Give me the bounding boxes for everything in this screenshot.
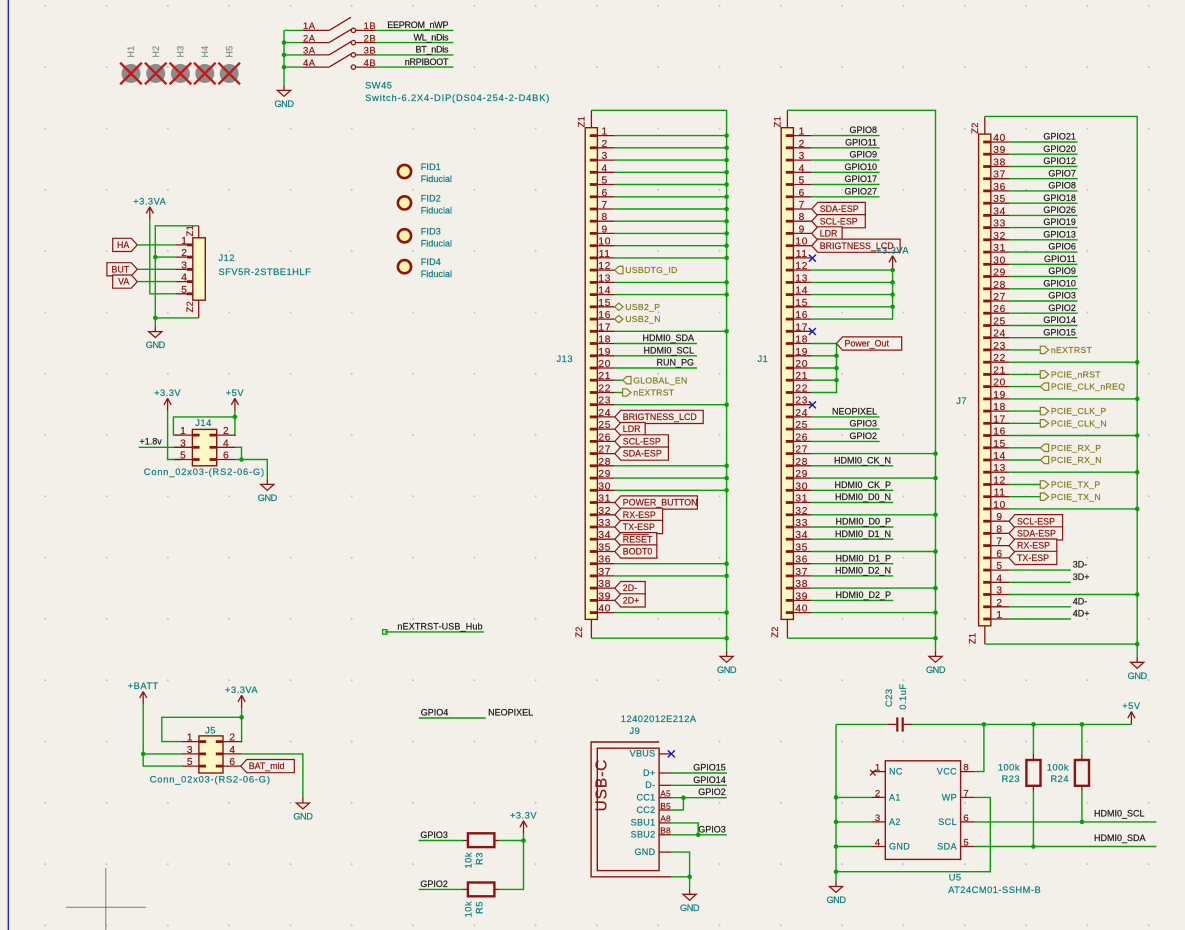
global label VA — [113, 275, 138, 288]
svg-text:3: 3 — [181, 260, 187, 271]
wire GPIO2 to R5 — [419, 888, 463, 890]
wire net GPIO15 — [1009, 337, 1078, 339]
svg-text:25: 25 — [993, 317, 1006, 328]
junction — [1080, 722, 1085, 727]
svg-text:SCL: SCL — [938, 817, 957, 827]
global label BRIGTNESS_LCD — [812, 239, 900, 252]
svg-text:GPIO11: GPIO11 — [1044, 254, 1076, 264]
svg-text:15: 15 — [795, 298, 808, 309]
global label RX-ESP — [1009, 539, 1057, 552]
svg-text:GPIO3: GPIO3 — [1048, 291, 1076, 301]
junction — [239, 457, 244, 462]
wire net nRPIBOOT — [376, 66, 453, 68]
svg-text:30: 30 — [598, 481, 611, 492]
svg-text:+1.8v: +1.8v — [140, 437, 163, 447]
svg-text:GPIO2: GPIO2 — [1048, 303, 1076, 313]
junction — [239, 715, 244, 720]
svg-text:A5: A5 — [660, 789, 671, 799]
capacitor C23 — [888, 717, 912, 731]
wire VA to pin4 — [137, 281, 176, 283]
junction — [890, 268, 895, 273]
wire net GPIO21 — [1009, 141, 1078, 143]
no-connect VBUS — [668, 750, 675, 757]
svg-text:GPIO10: GPIO10 — [844, 162, 877, 172]
wire net HDMI0_D0_P — [812, 526, 894, 528]
svg-text:GPIO21: GPIO21 — [1043, 132, 1076, 142]
junction — [724, 402, 729, 407]
hier label PCIE_CLK_N — [1040, 418, 1107, 428]
svg-text:20: 20 — [795, 359, 808, 370]
svg-text:28: 28 — [795, 457, 808, 468]
svg-text:5: 5 — [799, 176, 805, 187]
svg-text:FID3: FID3 — [421, 226, 441, 236]
svg-text:14: 14 — [598, 286, 611, 297]
svg-text:R5: R5 — [475, 901, 485, 914]
svg-text:1: 1 — [187, 733, 193, 744]
junction — [933, 586, 938, 591]
junction — [724, 292, 729, 297]
wire J13 pin 13 to GND bus — [615, 281, 727, 283]
wire A2 — [836, 821, 872, 823]
wire net 4D+ — [1009, 618, 1071, 620]
svg-text:D-: D- — [645, 780, 655, 790]
junction — [282, 65, 287, 70]
svg-text:PCIE_nRST: PCIE_nRST — [1051, 370, 1101, 380]
junction — [834, 869, 839, 874]
wire +BATT to pin3/pin5 — [143, 704, 181, 766]
junction — [724, 231, 729, 236]
svg-text:GPIO26: GPIO26 — [1043, 205, 1076, 215]
wire A1 — [836, 796, 872, 798]
junction — [890, 280, 895, 285]
junction — [834, 378, 839, 383]
svg-text:RUN_PG: RUN_PG — [656, 358, 694, 368]
global label LDR — [615, 423, 645, 436]
junction — [933, 549, 938, 554]
svg-text:21: 21 — [795, 371, 808, 382]
wire CC2 to CC1 — [671, 798, 683, 810]
svg-text:11: 11 — [994, 488, 1006, 499]
global label 2D- — [615, 582, 645, 595]
svg-text:SW45: SW45 — [365, 81, 392, 91]
label 10k R3 — [464, 852, 485, 869]
svg-text:40: 40 — [993, 133, 1006, 144]
wire R5 to junction — [499, 841, 523, 890]
junction — [933, 513, 938, 518]
hier label nEXTRST — [1040, 345, 1092, 355]
hier label nEXTRST — [623, 388, 675, 398]
svg-text:HDMI0_D0_N: HDMI0_D0_N — [835, 492, 891, 502]
junction — [834, 820, 839, 825]
svg-text:7: 7 — [963, 788, 969, 799]
ground U5 — [826, 881, 846, 905]
svg-text:28: 28 — [993, 280, 1006, 291]
wire J13 pin 40 to GND bus — [615, 612, 727, 614]
connector J7 — [967, 116, 1009, 644]
svg-text:3: 3 — [602, 151, 608, 162]
junction — [521, 838, 526, 843]
junction — [724, 488, 729, 493]
junction — [834, 844, 839, 849]
svg-text:PCIE_RX_P: PCIE_RX_P — [1051, 443, 1102, 453]
junction — [724, 146, 729, 151]
wire to hier label nEXTRST — [615, 392, 623, 394]
svg-text:RX-ESP: RX-ESP — [1017, 541, 1050, 551]
junction — [1135, 507, 1140, 512]
svg-text:4: 4 — [223, 438, 229, 449]
wire J1 pin 27 to GND bus — [812, 453, 936, 455]
origin marker cross — [66, 868, 146, 930]
svg-text:R23: R23 — [1001, 774, 1020, 784]
svg-text:7: 7 — [799, 200, 805, 211]
svg-text:HDMI0_SCL: HDMI0_SCL — [1094, 808, 1145, 818]
mounting hole H5 (DNP) — [218, 45, 240, 84]
svg-text:22: 22 — [795, 384, 808, 395]
svg-text:6: 6 — [996, 549, 1002, 560]
svg-text:SBU1: SBU1 — [631, 818, 656, 828]
svg-text:HA: HA — [117, 240, 129, 250]
svg-text:5: 5 — [187, 757, 193, 768]
ground J12 — [146, 326, 166, 350]
wire +3.3V to pin5 — [168, 411, 181, 459]
junction — [724, 561, 729, 566]
svg-text:18: 18 — [598, 335, 611, 346]
svg-text:SDA-ESP: SDA-ESP — [1017, 529, 1056, 539]
wire net BT_nDis — [376, 54, 453, 56]
svg-text:NEOPIXEL: NEOPIXEL — [488, 708, 533, 718]
wire J13 pin 2 to GND bus — [615, 147, 727, 149]
wire J13 pin 17 to GND bus — [615, 330, 727, 332]
svg-text:GPIO9: GPIO9 — [849, 150, 877, 160]
svg-text:17: 17 — [795, 322, 808, 333]
wire net 3D+ — [1009, 581, 1071, 583]
svg-text:3: 3 — [996, 586, 1002, 597]
wire J13 pin 8 to GND bus — [615, 220, 727, 222]
svg-text:4B: 4B — [364, 57, 376, 68]
wire net GPIO10 — [812, 171, 880, 173]
svg-text:2B: 2B — [364, 32, 376, 43]
svg-text:FID4: FID4 — [421, 257, 441, 267]
svg-text:A1: A1 — [889, 792, 901, 802]
svg-text:38: 38 — [795, 579, 808, 590]
junction — [153, 316, 158, 321]
junction — [724, 243, 729, 248]
wire SBU1 to SBU2 — [671, 823, 698, 835]
svg-text:20: 20 — [993, 378, 1006, 389]
fiducial FID4 — [398, 260, 411, 273]
svg-text:GPIO18: GPIO18 — [1043, 193, 1076, 203]
svg-text:5: 5 — [963, 838, 969, 849]
svg-text:2: 2 — [223, 426, 229, 437]
wire to hier label PCIE_CLK_N — [1009, 422, 1040, 424]
svg-text:33: 33 — [993, 219, 1006, 230]
svg-text:22: 22 — [993, 353, 1006, 364]
wire to hier label PCIE_RX_N — [1009, 459, 1040, 461]
svg-text:3B: 3B — [364, 45, 376, 56]
wire J13 pin 36 to GND bus — [615, 563, 727, 565]
wire J13 pin 11 to GND bus — [615, 257, 727, 259]
svg-text:Z2: Z2 — [185, 301, 195, 312]
svg-text:PCIE_TX_P: PCIE_TX_P — [1051, 480, 1101, 490]
junction — [282, 40, 287, 45]
svg-text:Z1: Z1 — [576, 116, 586, 127]
svg-text:34: 34 — [993, 206, 1006, 217]
svg-text:34: 34 — [598, 530, 611, 541]
svg-text:USBDTG_ID: USBDTG_ID — [625, 265, 677, 275]
junction — [1135, 470, 1140, 475]
resistor R24 — [1075, 724, 1089, 822]
svg-text:nEXTRST-USB_Hub: nEXTRST-USB_Hub — [397, 621, 482, 631]
svg-text:GLOBAL_EN: GLOBAL_EN — [633, 375, 687, 385]
svg-text:+BATT: +BATT — [128, 681, 159, 691]
wire nEXTRST-USB_Hub — [383, 630, 485, 634]
wire SW45 3A — [284, 54, 303, 56]
hier label PCIE_CLK_P — [1040, 406, 1106, 416]
connector J1 — [770, 110, 812, 638]
label FID3 — [421, 226, 452, 248]
wire J1 pin 19 — [812, 355, 837, 357]
wire net 4D- — [1009, 606, 1071, 608]
svg-text:14: 14 — [795, 286, 808, 297]
power +5V J14 — [226, 388, 245, 411]
wire +5V down to pin2 — [234, 417, 237, 435]
svg-text:3D+: 3D+ — [1073, 572, 1090, 582]
junction — [141, 752, 146, 757]
svg-text:PCIE_RX_N: PCIE_RX_N — [1051, 455, 1102, 465]
sheet border — [7, 0, 9, 930]
svg-text:9: 9 — [799, 224, 805, 235]
power +3.3V R3 — [510, 810, 537, 833]
svg-text:BUT: BUT — [112, 264, 130, 274]
svg-text:3A: 3A — [303, 45, 316, 56]
junction — [1135, 360, 1140, 365]
svg-text:2A: 2A — [303, 32, 316, 43]
wire net GPIO27 — [812, 196, 880, 198]
global label SCL-ESP — [615, 435, 669, 448]
junction — [834, 795, 839, 800]
svg-text:3D-: 3D- — [1073, 560, 1088, 570]
svg-text:GPIO2: GPIO2 — [698, 787, 726, 797]
fiducial FID2 — [398, 196, 411, 209]
hier label PCIE_CLK_nREQ — [1040, 382, 1125, 392]
wire net GPIO8 — [812, 135, 880, 137]
svg-text:TX-ESP: TX-ESP — [623, 522, 655, 532]
wire J13 pin 5 to GND bus — [615, 184, 727, 186]
svg-text:Z1: Z1 — [185, 225, 195, 236]
wire net GPIO2 — [1009, 312, 1078, 314]
wire J1 pin 14 — [812, 294, 893, 296]
svg-text:HDMI0_SDA: HDMI0_SDA — [642, 333, 694, 343]
svg-text:USB-C: USB-C — [594, 759, 611, 812]
global label SCL-ESP — [812, 215, 866, 228]
svg-text:37: 37 — [795, 567, 808, 578]
junction — [933, 476, 938, 481]
svg-text:4D-: 4D- — [1073, 596, 1088, 606]
junction — [724, 133, 729, 138]
ground J13 — [717, 651, 737, 675]
wire SW45 2A — [284, 42, 303, 44]
svg-text:19: 19 — [993, 390, 1006, 401]
svg-text:29: 29 — [598, 469, 611, 480]
svg-text:22: 22 — [598, 384, 611, 395]
svg-text:SCL-ESP: SCL-ESP — [623, 437, 661, 447]
ground J14 — [258, 479, 278, 503]
svg-text:100k: 100k — [998, 762, 1020, 772]
svg-text:GPIO3: GPIO3 — [849, 419, 877, 429]
svg-text:38: 38 — [993, 158, 1006, 169]
wire GND J9 — [671, 852, 690, 889]
wire J13 pin 7 to GND bus — [615, 208, 727, 210]
junction — [1135, 642, 1140, 647]
svg-text:12402012E212A: 12402012E212A — [621, 714, 697, 724]
wire net RUN_PG — [615, 367, 697, 369]
global label LDR — [812, 227, 842, 240]
resistor R5 — [463, 883, 499, 897]
svg-text:GND: GND — [274, 99, 294, 109]
svg-text:3: 3 — [180, 438, 186, 449]
svg-text:27: 27 — [795, 445, 808, 456]
wire J13 pin 9 to GND bus — [615, 232, 727, 234]
svg-text:17: 17 — [598, 322, 611, 333]
wire net GPIO11 — [1009, 263, 1078, 265]
switch SW45 pole 4 — [303, 54, 377, 69]
svg-text:36: 36 — [993, 182, 1006, 193]
svg-text:AT24CM01-SSHM-B: AT24CM01-SSHM-B — [948, 885, 1041, 895]
svg-text:6: 6 — [223, 451, 229, 462]
wire net GPIO18 — [1009, 202, 1078, 204]
svg-text:2: 2 — [602, 139, 608, 150]
junction — [724, 636, 729, 641]
junction — [1135, 592, 1140, 597]
svg-text:33: 33 — [598, 518, 611, 529]
svg-text:5: 5 — [602, 176, 608, 187]
svg-text:7: 7 — [602, 200, 608, 211]
svg-text:POWER_BUTTON: POWER_BUTTON — [623, 498, 698, 508]
wire J7 pin 3 to GND bus — [1009, 594, 1137, 596]
svg-text:PCIE_CLK_nREQ: PCIE_CLK_nREQ — [1051, 382, 1125, 392]
svg-text:2D+: 2D+ — [623, 596, 640, 606]
wire Power_Out bundle vertical — [812, 344, 837, 393]
junction — [724, 574, 729, 579]
svg-text:Fiducial: Fiducial — [421, 238, 452, 248]
wire GND U5 — [836, 846, 872, 848]
junction — [696, 833, 701, 838]
power +3.3VA J5 — [225, 685, 258, 708]
junction — [724, 195, 729, 200]
wire J1 pin 38 to GND bus — [812, 587, 936, 589]
ground J5 — [293, 798, 313, 822]
svg-text:4: 4 — [875, 838, 881, 849]
wire net EEPROM_nWP — [376, 29, 453, 31]
wire J1 pin 20 — [812, 367, 837, 369]
wire J7 pin 22 to GND bus — [1009, 361, 1137, 363]
junction — [724, 256, 729, 261]
svg-text:31: 31 — [598, 494, 611, 505]
svg-text:WP: WP — [942, 792, 957, 802]
svg-text:+5V: +5V — [1122, 701, 1141, 711]
svg-text:1: 1 — [180, 426, 186, 437]
svg-text:H5: H5 — [224, 45, 234, 57]
svg-text:VCC: VCC — [937, 767, 957, 777]
svg-text:SCL-ESP: SCL-ESP — [820, 216, 858, 226]
connector J9 USB-C — [591, 742, 671, 877]
svg-text:5: 5 — [181, 285, 187, 296]
svg-text:10: 10 — [795, 237, 808, 248]
svg-text:GPIO20: GPIO20 — [1043, 144, 1076, 154]
wire net HDMI0_D1_P — [812, 563, 894, 565]
hier label GLOBAL_EN — [623, 375, 688, 385]
wire U5 left rail — [835, 724, 837, 881]
global label Power_Out — [837, 337, 902, 350]
svg-text:20: 20 — [598, 359, 611, 370]
svg-text:GND: GND — [680, 903, 700, 913]
wire J13 pin 30 to GND bus — [615, 489, 727, 491]
svg-text:1A: 1A — [303, 20, 316, 31]
svg-text:23: 23 — [598, 396, 611, 407]
junction — [933, 451, 938, 456]
wire net GPIO10 — [1009, 288, 1078, 290]
wire J7 Z-bottom to bus — [985, 643, 1137, 645]
svg-text:26: 26 — [795, 432, 808, 443]
wire SBU2 GPIO3 — [671, 834, 727, 836]
wire J1 pin 29 to GND bus — [812, 477, 936, 479]
wire net GPIO11 — [812, 147, 880, 149]
svg-text:A8: A8 — [660, 814, 671, 824]
svg-text:2: 2 — [229, 733, 235, 744]
wire net WL_nDis — [376, 42, 453, 44]
svg-text:2: 2 — [799, 139, 805, 150]
svg-text:+3.3VA: +3.3VA — [225, 685, 258, 695]
wire to hier label PCIE_CLK_P — [1009, 410, 1040, 412]
svg-text:12: 12 — [598, 261, 611, 272]
svg-text:H3: H3 — [176, 45, 186, 57]
wire J1 pin 32 to GND bus — [812, 514, 936, 516]
svg-text:SBU2: SBU2 — [631, 830, 656, 840]
svg-text:100k: 100k — [1047, 762, 1069, 772]
svg-text:GPIO7: GPIO7 — [1048, 168, 1076, 178]
svg-text:26: 26 — [598, 432, 611, 443]
svg-text:15: 15 — [993, 439, 1006, 450]
svg-text:33: 33 — [795, 518, 808, 529]
svg-text:HDMI0_D2_P: HDMI0_D2_P — [835, 590, 891, 600]
junction — [834, 354, 839, 359]
svg-text:J9: J9 — [630, 726, 641, 736]
ground SW45 — [274, 85, 294, 109]
svg-text:39: 39 — [795, 591, 808, 602]
wire J13 pin 28 to GND bus — [615, 465, 727, 467]
wire +5V loop to pin1 — [173, 411, 235, 435]
svg-text:VBUS: VBUS — [630, 749, 656, 759]
wire +3.3V stub — [523, 834, 525, 841]
svg-text:29: 29 — [795, 469, 808, 480]
wire net GPIO26 — [1009, 214, 1078, 216]
switch SW45 pole 3 — [303, 42, 377, 57]
wire J1 pin 12 — [812, 269, 893, 271]
wire +3.3VA bundle — [812, 269, 893, 320]
svg-text:CC1: CC1 — [636, 793, 655, 803]
svg-text:28: 28 — [598, 457, 611, 468]
wire net HDMI0_SDA — [615, 343, 697, 345]
svg-text:30: 30 — [795, 481, 808, 492]
wire +3.3VA loop to pin1 — [162, 708, 242, 742]
svg-text:10k: 10k — [464, 852, 474, 869]
svg-text:1: 1 — [181, 236, 187, 247]
wire net GPIO12 — [1009, 166, 1078, 168]
svg-text:NEOPIXEL: NEOPIXEL — [832, 407, 877, 417]
wire net GPIO14 — [1009, 325, 1078, 327]
svg-text:GPIO2: GPIO2 — [849, 431, 877, 441]
global label TX-ESP — [1009, 551, 1057, 564]
